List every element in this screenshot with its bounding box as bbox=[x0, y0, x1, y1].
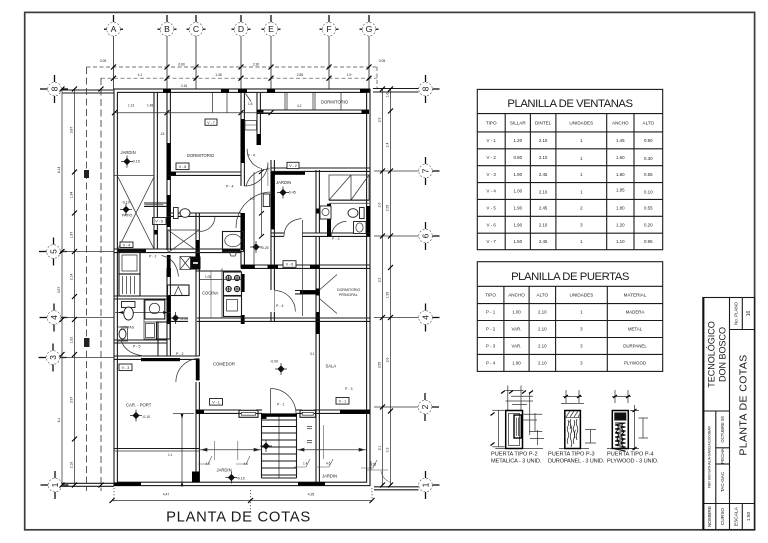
svg-text:0.90: 0.90 bbox=[644, 138, 653, 143]
svg-text:2.10: 2.10 bbox=[539, 155, 548, 160]
svg-text:3.55: 3.55 bbox=[378, 362, 382, 369]
svg-text:A: A bbox=[111, 24, 117, 34]
svg-text:1.62: 1.62 bbox=[70, 337, 74, 344]
svg-text:1.48: 1.48 bbox=[147, 104, 153, 108]
svg-text:1.13: 1.13 bbox=[128, 104, 134, 108]
svg-text:4: 4 bbox=[421, 315, 431, 320]
svg-text:V - 7: V - 7 bbox=[207, 121, 215, 125]
svg-text:MATERIAL: MATERIAL bbox=[624, 293, 647, 298]
svg-text:P - 4: P - 4 bbox=[276, 304, 284, 308]
svg-text:P - 3: P - 3 bbox=[486, 344, 496, 349]
svg-text:TECNOLÓGICO: TECNOLÓGICO bbox=[707, 321, 717, 388]
svg-text:-0.10: -0.10 bbox=[237, 476, 245, 480]
svg-text:0.30: 0.30 bbox=[644, 156, 653, 161]
svg-text:ALTO: ALTO bbox=[643, 120, 655, 125]
svg-text:-0.10: -0.10 bbox=[142, 415, 150, 419]
svg-text:2.10: 2.10 bbox=[539, 138, 548, 143]
svg-text:2.10: 2.10 bbox=[538, 361, 547, 366]
svg-text:V - 3: V - 3 bbox=[122, 366, 130, 370]
svg-text:JARDIN: JARDIN bbox=[121, 150, 136, 155]
svg-text:1.20: 1.20 bbox=[514, 138, 523, 143]
svg-text:2.45: 2.45 bbox=[539, 206, 548, 211]
svg-text:8: 8 bbox=[50, 86, 60, 91]
svg-text:TIPO: TIPO bbox=[485, 293, 496, 298]
svg-text:-0.20: -0.20 bbox=[180, 317, 188, 321]
svg-text:1.50: 1.50 bbox=[514, 239, 523, 244]
svg-text:3.97: 3.97 bbox=[70, 397, 74, 404]
svg-text:DORMITORIO: DORMITORIO bbox=[321, 100, 349, 105]
svg-text:2: 2 bbox=[420, 404, 430, 409]
svg-text:6.1: 6.1 bbox=[57, 418, 61, 423]
svg-text:V - 6: V - 6 bbox=[487, 222, 497, 227]
svg-text:4.35: 4.35 bbox=[370, 463, 376, 467]
svg-text:1.1: 1.1 bbox=[168, 453, 173, 457]
svg-text:3.1: 3.1 bbox=[378, 446, 382, 451]
svg-text:JARDIN: JARDIN bbox=[322, 474, 337, 479]
svg-text:V - 1: V - 1 bbox=[487, 138, 497, 143]
svg-text:PLANILLA DE VENTANAS: PLANILLA DE VENTANAS bbox=[507, 98, 633, 110]
svg-text:METAL: METAL bbox=[628, 327, 643, 332]
svg-text:1.80: 1.80 bbox=[616, 206, 625, 211]
svg-text:0.55: 0.55 bbox=[644, 206, 653, 211]
svg-text:COMEDOR: COMEDOR bbox=[213, 362, 235, 367]
svg-text:0.60: 0.60 bbox=[178, 63, 185, 67]
svg-text:P - 2: P - 2 bbox=[486, 327, 496, 332]
svg-text:1: 1 bbox=[50, 482, 60, 487]
svg-text:PUERTA TIPO P-3: PUERTA TIPO P-3 bbox=[548, 452, 595, 458]
svg-text:C: C bbox=[193, 24, 199, 34]
svg-text:0.80: 0.80 bbox=[514, 155, 523, 160]
svg-text:COCINA: COCINA bbox=[202, 291, 218, 296]
svg-text:1.60: 1.60 bbox=[616, 155, 625, 160]
svg-text:TAC-GAC: TAC-GAC bbox=[720, 471, 725, 492]
svg-text:-0.10: -0.10 bbox=[122, 201, 130, 205]
svg-text:1.4: 1.4 bbox=[303, 462, 308, 466]
svg-text:1.6: 1.6 bbox=[386, 93, 390, 98]
svg-text:-0.00: -0.00 bbox=[270, 360, 278, 364]
svg-text:7: 7 bbox=[421, 168, 431, 173]
svg-text:P - 4: P - 4 bbox=[248, 154, 256, 158]
svg-text:0.95: 0.95 bbox=[644, 239, 653, 244]
svg-text:P - 5: P - 5 bbox=[133, 345, 141, 349]
svg-text:PLANTA DE COTAS: PLANTA DE COTAS bbox=[166, 509, 311, 525]
svg-text:2.14: 2.14 bbox=[70, 274, 74, 281]
svg-text:G: G bbox=[366, 24, 373, 34]
svg-text:.15: .15 bbox=[160, 132, 165, 136]
svg-text:ALTO: ALTO bbox=[537, 293, 549, 298]
svg-text:4.47: 4.47 bbox=[163, 493, 170, 497]
svg-text:P - 1: P - 1 bbox=[277, 403, 285, 407]
svg-text:1.6: 1.6 bbox=[248, 102, 253, 106]
svg-text:1.80: 1.80 bbox=[616, 172, 625, 177]
svg-text:2.45: 2.45 bbox=[539, 172, 548, 177]
svg-text:4.5: 4.5 bbox=[206, 462, 211, 466]
svg-text:0.05: 0.05 bbox=[100, 59, 107, 63]
svg-text:2.45: 2.45 bbox=[539, 239, 548, 244]
svg-text:SALA: SALA bbox=[326, 364, 337, 369]
svg-text:OCTUBRE 08: OCTUBRE 08 bbox=[720, 416, 725, 443]
svg-text:METALICA - 3 UNID.: METALICA - 3 UNID. bbox=[491, 459, 542, 465]
svg-text:2.10: 2.10 bbox=[538, 344, 547, 349]
svg-text:1.90: 1.90 bbox=[514, 206, 523, 211]
svg-text:V - 4: V - 4 bbox=[123, 244, 131, 248]
svg-text:2.16: 2.16 bbox=[70, 462, 74, 469]
svg-text:3.87: 3.87 bbox=[70, 127, 74, 134]
svg-text:V - 5: V - 5 bbox=[155, 220, 163, 224]
svg-text:JARDIN: JARDIN bbox=[276, 180, 291, 185]
svg-text:P - 2: P - 2 bbox=[149, 255, 157, 259]
svg-text:4.1: 4.1 bbox=[138, 73, 143, 77]
svg-text:PLANILLA DE PUERTAS: PLANILLA DE PUERTAS bbox=[511, 271, 630, 283]
svg-text:2.10: 2.10 bbox=[538, 327, 547, 332]
svg-text:0.20: 0.20 bbox=[644, 222, 653, 227]
svg-text:1.00: 1.00 bbox=[514, 189, 523, 194]
svg-text:F: F bbox=[326, 24, 331, 34]
svg-text:CURSO: CURSO bbox=[720, 508, 726, 526]
svg-text:5: 5 bbox=[49, 249, 59, 254]
svg-text:P - 2: P - 2 bbox=[176, 352, 184, 356]
svg-text:PLYWOOD: PLYWOOD bbox=[624, 361, 646, 366]
svg-text:2.85: 2.85 bbox=[297, 73, 304, 77]
svg-text:ESCALA: ESCALA bbox=[733, 506, 739, 526]
svg-text:P - 3: P - 3 bbox=[345, 387, 353, 391]
svg-text:3.9: 3.9 bbox=[378, 118, 382, 123]
svg-text:No. PLANO: No. PLANO bbox=[733, 301, 738, 325]
svg-text:2.16: 2.16 bbox=[181, 84, 187, 88]
svg-text:2.10: 2.10 bbox=[539, 222, 548, 227]
svg-text:6: 6 bbox=[421, 233, 431, 238]
svg-text:B: B bbox=[164, 24, 170, 34]
svg-text:2.6: 2.6 bbox=[378, 203, 382, 208]
svg-text:1.95: 1.95 bbox=[386, 292, 390, 299]
svg-text:0.55: 0.55 bbox=[644, 172, 653, 177]
svg-text:VISITAS: VISITAS bbox=[121, 326, 135, 330]
svg-text:UNIDADES: UNIDADES bbox=[569, 120, 593, 125]
svg-text:2.10: 2.10 bbox=[538, 310, 547, 315]
svg-text:1.45: 1.45 bbox=[616, 138, 625, 143]
svg-text:PATIO: PATIO bbox=[122, 214, 132, 218]
svg-text:ANCHO: ANCHO bbox=[508, 293, 525, 298]
svg-text:PLYWOOD - 3 UNID.: PLYWOOD - 3 UNID. bbox=[607, 459, 659, 465]
svg-text:V - 2: V - 2 bbox=[289, 164, 297, 168]
svg-text:JARDIN: JARDIN bbox=[217, 468, 232, 473]
svg-text:1.9: 1.9 bbox=[347, 73, 352, 77]
svg-text:1.85: 1.85 bbox=[616, 188, 625, 193]
svg-text:0.10: 0.10 bbox=[644, 190, 653, 195]
svg-text:3.1: 3.1 bbox=[310, 352, 315, 356]
svg-text:1.90: 1.90 bbox=[512, 361, 521, 366]
svg-text:2.10: 2.10 bbox=[539, 190, 548, 195]
svg-text:1.90: 1.90 bbox=[514, 222, 523, 227]
svg-text:1:50: 1:50 bbox=[746, 512, 752, 522]
svg-text:DUROPANEL - 3 UNID.: DUROPANEL - 3 UNID. bbox=[548, 459, 605, 465]
svg-text:3.6: 3.6 bbox=[386, 358, 390, 363]
svg-text:V - 3: V - 3 bbox=[487, 172, 497, 177]
svg-text:8.14: 8.14 bbox=[57, 167, 61, 174]
svg-text:1.00: 1.00 bbox=[512, 310, 521, 315]
svg-text:V - 5: V - 5 bbox=[487, 206, 497, 211]
svg-text:2.30: 2.30 bbox=[253, 63, 260, 67]
svg-text:PUERTA TIPO P-2: PUERTA TIPO P-2 bbox=[491, 452, 538, 458]
svg-text:8: 8 bbox=[421, 86, 431, 91]
svg-text:1.05: 1.05 bbox=[205, 275, 211, 279]
svg-text:MADERA: MADERA bbox=[626, 310, 645, 315]
svg-text:3.67: 3.67 bbox=[57, 287, 61, 294]
svg-text:PRINCIPAL: PRINCIPAL bbox=[339, 293, 358, 297]
svg-text:-0.20: -0.20 bbox=[261, 246, 269, 250]
svg-text:1.35: 1.35 bbox=[215, 73, 222, 77]
svg-text:V - 2: V - 2 bbox=[487, 155, 497, 160]
svg-text:DURPANEL: DURPANEL bbox=[623, 344, 647, 349]
svg-text:1.87: 1.87 bbox=[70, 232, 74, 239]
svg-text:4.2: 4.2 bbox=[297, 104, 302, 108]
svg-text:SILLAR: SILLAR bbox=[510, 120, 527, 125]
svg-text:V - 7: V - 7 bbox=[487, 239, 497, 244]
svg-text:V - 6: V - 6 bbox=[286, 263, 294, 267]
svg-text:P - 1: P - 1 bbox=[486, 310, 496, 315]
svg-text:1: 1 bbox=[421, 482, 431, 487]
svg-text:P - 4: P - 4 bbox=[226, 185, 234, 189]
svg-text:2.9: 2.9 bbox=[386, 448, 390, 453]
svg-text:PLANTA DE COTAS: PLANTA DE COTAS bbox=[738, 354, 750, 455]
svg-text:16: 16 bbox=[746, 311, 752, 317]
svg-text:0.05: 0.05 bbox=[379, 59, 386, 63]
svg-text:4.35: 4.35 bbox=[308, 493, 315, 497]
svg-text:FBR GIB NATHALIA GARCIA ESCOBA: FBR GIB NATHALIA GARCIA ESCOBAR bbox=[708, 425, 712, 487]
svg-text:1.90: 1.90 bbox=[514, 172, 523, 177]
svg-text:P - 3: P - 3 bbox=[332, 237, 340, 241]
svg-text:DON BOSCO: DON BOSCO bbox=[718, 327, 728, 382]
svg-text:2.4: 2.4 bbox=[386, 143, 390, 148]
svg-text:VAR.: VAR. bbox=[512, 327, 522, 332]
svg-text:1.0: 1.0 bbox=[250, 197, 255, 201]
svg-text:E: E bbox=[268, 24, 274, 34]
svg-text:P - 4: P - 4 bbox=[486, 361, 496, 366]
svg-text:1.94: 1.94 bbox=[70, 192, 74, 199]
svg-text:4: 4 bbox=[49, 315, 59, 320]
svg-text:3: 3 bbox=[48, 355, 58, 360]
svg-text:NOMBRE: NOMBRE bbox=[707, 506, 713, 527]
svg-text:TIPO: TIPO bbox=[486, 120, 497, 125]
svg-text:CAR. - PORT: CAR. - PORT bbox=[126, 403, 152, 408]
svg-text:DORMITORIO: DORMITORIO bbox=[337, 288, 360, 292]
svg-text:V - 8: V - 8 bbox=[179, 165, 187, 169]
svg-text:FECHA: FECHA bbox=[720, 447, 725, 464]
svg-text:1.10: 1.10 bbox=[616, 239, 625, 244]
svg-text:D: D bbox=[238, 24, 244, 34]
svg-text:UNIDADES: UNIDADES bbox=[570, 293, 594, 298]
svg-text:4.6: 4.6 bbox=[244, 462, 249, 466]
svg-text:DINTEL: DINTEL bbox=[535, 120, 552, 125]
svg-text:4.6: 4.6 bbox=[326, 462, 331, 466]
svg-text:ANCHO: ANCHO bbox=[612, 120, 629, 125]
svg-text:V - 1: V - 1 bbox=[339, 399, 347, 403]
svg-text:VAR.: VAR. bbox=[512, 344, 522, 349]
svg-text:V - 1: V - 1 bbox=[212, 400, 220, 404]
svg-text:DORMITORIO: DORMITORIO bbox=[187, 153, 215, 158]
svg-text:PUERTA TIPO P-4: PUERTA TIPO P-4 bbox=[607, 452, 654, 458]
svg-text:2.55: 2.55 bbox=[386, 205, 390, 212]
svg-text:V - 4: V - 4 bbox=[487, 189, 497, 194]
svg-text:3.2: 3.2 bbox=[378, 278, 382, 283]
svg-text:1.20: 1.20 bbox=[616, 222, 625, 227]
